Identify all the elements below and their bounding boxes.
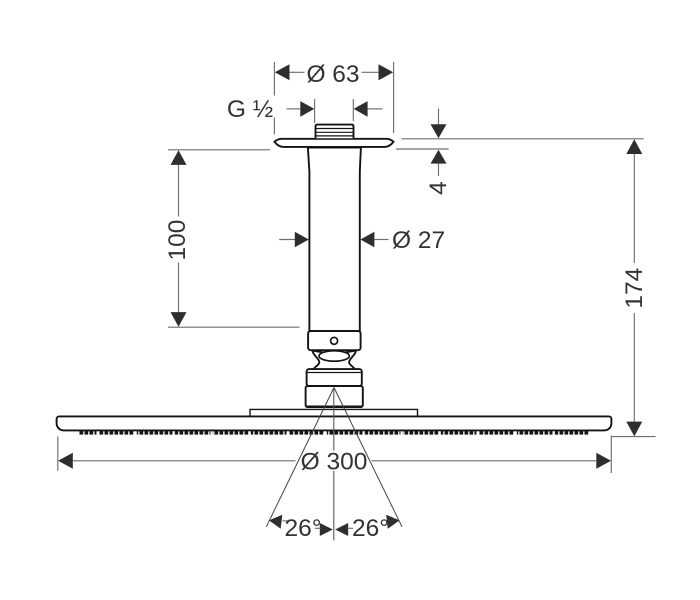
collar hole (331, 337, 338, 344)
dimension Ø300 line right (372, 460, 597, 462)
dimension 4 lower line (438, 164, 440, 176)
lower block base line (306, 405, 362, 407)
housing lip line (307, 372, 361, 374)
angle 26 left inner connector (315, 527, 321, 529)
mounting plinth on disc (250, 409, 418, 416)
dimension Ø300 arrow left (58, 453, 73, 469)
dimension Ø27 arrow left (295, 232, 309, 248)
pipe (vertical shower arm) (308, 148, 361, 332)
angle 26 left inner arrow (320, 523, 333, 536)
ball joint right profile (349, 350, 356, 369)
thread line 1 (316, 128, 354, 130)
dimension 4 lower arrow (431, 150, 447, 164)
angle 26 left connector (283, 520, 289, 522)
dimension Ø27 line right (374, 239, 388, 241)
dimension Ø27 line left (279, 239, 295, 241)
dimension 174 arrow bottom (626, 422, 642, 437)
dimension 174 line upper (633, 154, 635, 263)
dimension Ø63 arrow right (379, 64, 394, 80)
svg-text:4: 4 (425, 181, 452, 195)
dimension G1/2 extension right (352, 99, 354, 121)
dimension 174 line lower (633, 313, 635, 422)
svg-text:Ø 300: Ø 300 (301, 449, 368, 476)
flange bottom reference line (396, 148, 449, 150)
upper joint housing block (307, 369, 362, 386)
ball joint socket arc (313, 351, 356, 354)
svg-text:100: 100 (164, 220, 191, 261)
shower head disc (57, 416, 612, 430)
angle 26 right inner connector (348, 527, 354, 529)
nozzle band (80, 431, 590, 435)
dimension Ø63 arrow left (275, 64, 290, 80)
dimension 4 upper arrow (431, 124, 447, 138)
dimension G1/2 line left (286, 108, 300, 110)
ball joint left profile (312, 350, 319, 369)
angle 26 right connector (388, 519, 394, 521)
dimension Ø27 arrow right (360, 232, 374, 248)
dimension 174 bottom reference line (612, 436, 656, 438)
angle 26 right inner arrow (335, 523, 348, 536)
ceiling flange (275, 139, 394, 147)
dimension Ø63 extension right (393, 62, 395, 133)
thread line 3 (316, 135, 354, 137)
dimension 100 line lower (178, 263, 180, 313)
spray line right (334, 388, 402, 527)
spray axis centerline (333, 388, 335, 451)
dimension Ø300 extension left (57, 436, 59, 471)
dimension 100 line upper (178, 165, 180, 217)
dimension 100 extension bottom (168, 326, 300, 328)
spray line left (266, 388, 334, 527)
dimension Ø63 line right (362, 71, 380, 73)
dimension Ø63 extension left (273, 62, 275, 96)
lower joint housing block (306, 386, 363, 407)
svg-text:26°: 26° (352, 515, 389, 542)
flange top reference line (402, 138, 644, 140)
angle 26 left outer arrow (269, 515, 282, 529)
dimension G1/2 line right (368, 108, 383, 110)
dimension G1/2 arrow left (300, 101, 314, 117)
svg-text:Ø 27: Ø 27 (392, 227, 445, 254)
dimension 100 arrow top (171, 150, 187, 165)
svg-text:G ½: G ½ (227, 96, 273, 123)
dimension 100 arrow bottom (171, 312, 187, 327)
thread line 2 (316, 131, 354, 133)
ball joint ball (319, 351, 349, 361)
dimension G1/2 extension left (314, 99, 316, 123)
dimension Ø300 arrow right (596, 453, 611, 469)
dimension 174 arrow top (626, 139, 642, 154)
nozzle band gaps (97, 431, 555, 436)
svg-text:174: 174 (621, 268, 648, 309)
svg-text:Ø 63: Ø 63 (306, 61, 359, 88)
dimension 4 upper line (438, 109, 440, 125)
dimension 100 extension top (168, 149, 270, 151)
angle 26 right outer arrow (386, 515, 399, 529)
threaded stub G1/2 (316, 125, 354, 139)
dimension Ø300 extension right (610, 435, 612, 473)
dimension Ø300 line left (73, 460, 296, 462)
collar nut (308, 331, 361, 350)
dimension Ø63 line left (290, 71, 305, 73)
dimension G1/2 arrow right (354, 101, 368, 117)
